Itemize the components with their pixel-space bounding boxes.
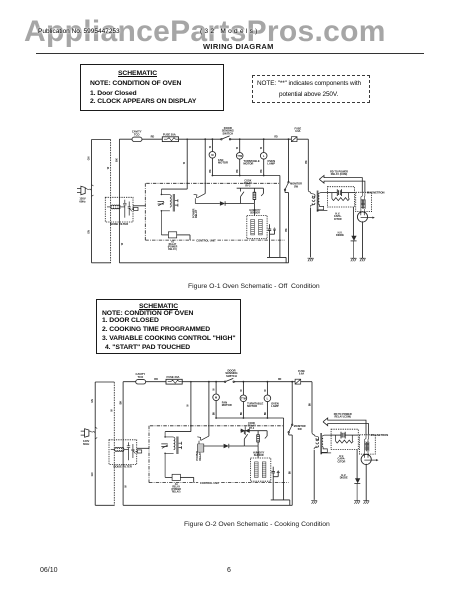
label FAN MOTOR bbox=[218, 158, 228, 165]
wire label W lower bbox=[121, 242, 124, 245]
svg-text:MOTOR: MOTOR bbox=[243, 162, 253, 166]
svg-text:BK: BK bbox=[306, 160, 308, 164]
wire - third vertical (line to fuse) bbox=[118, 139, 120, 263]
svg-text:MAGNETRON: MAGNETRON bbox=[367, 191, 385, 195]
wire - A1 relay to boundary bbox=[177, 235, 190, 240]
svg-text:BK: BK bbox=[116, 158, 119, 162]
wire - transformer secondary to ground leg bbox=[310, 208, 312, 258]
capacitor C2 (noise filter) bbox=[128, 202, 132, 216]
svg-text:W: W bbox=[107, 166, 110, 169]
label NOISE FILTER bbox=[110, 222, 128, 226]
svg-text:W: W bbox=[210, 145, 212, 148]
monitor switch SW2 bbox=[284, 139, 289, 263]
svg-text:0.6A: 0.6A bbox=[295, 130, 300, 133]
door sensing switch SW1 bbox=[220, 136, 232, 142]
wire - arrow tail drop bbox=[0, 0, 1, 1]
control unit boundary (dash-dot) bbox=[145, 183, 285, 240]
relay RY-2 contact bbox=[237, 188, 264, 203]
humidity sensor dashed box bbox=[247, 216, 267, 239]
wire - top supply bus bbox=[119, 138, 308, 140]
wire - relay output horizontal bbox=[195, 203, 240, 205]
label TURNTABLE MOTOR bbox=[243, 159, 259, 166]
caption figure O-2 bbox=[184, 521, 330, 528]
svg-text:BK: BK bbox=[261, 169, 263, 173]
junction dot bottom fan bbox=[212, 175, 214, 177]
fan motor M1 bbox=[209, 152, 216, 159]
svg-text:RELAY (COM): RELAY (COM) bbox=[331, 173, 348, 176]
wire - transformer primary top feed bbox=[161, 138, 188, 189]
caption figure O-1 bbox=[188, 283, 320, 290]
sensor element 2 bbox=[259, 219, 263, 235]
header rule bbox=[36, 53, 424, 54]
svg-text:TTM: TTM bbox=[237, 156, 242, 158]
label DOOR SENSING SWITCH bbox=[222, 126, 234, 136]
svg-text:CONTROL UNIT: CONTROL UNIT bbox=[196, 239, 216, 243]
low voltage transformer T1 bbox=[158, 189, 178, 235]
wire - second vertical (neutral lead) bbox=[110, 140, 112, 263]
wire - filter to control unit bbox=[133, 205, 145, 207]
wire label W lamp bbox=[261, 146, 263, 149]
junction transformer feed bbox=[186, 183, 188, 185]
label MAGNETRON bbox=[367, 191, 385, 195]
junction at fan motor branch bbox=[212, 138, 214, 140]
relay RY contact block (O-2 only) bbox=[198, 444, 204, 452]
svg-text:RY-2: RY-2 bbox=[245, 185, 251, 187]
title WIRING DIAGRAM bbox=[203, 42, 274, 51]
magnetron V1 bbox=[357, 212, 374, 223]
svg-text:W: W bbox=[237, 146, 239, 149]
wire label RD bbox=[151, 136, 155, 139]
label 120V 60Hz bbox=[79, 197, 86, 204]
label RELAY text bbox=[244, 180, 252, 187]
junction HV secondary bbox=[318, 209, 328, 211]
wire - bottom return bus bbox=[119, 262, 288, 264]
svg-text:GN: GN bbox=[87, 156, 90, 160]
svg-text:M: M bbox=[211, 153, 213, 157]
svg-text:W: W bbox=[184, 161, 186, 164]
sensor element 1 bbox=[251, 219, 255, 235]
wire - motor bottom bus bbox=[212, 175, 280, 177]
svg-text:SW: SW bbox=[294, 185, 299, 188]
label H.V. CAPACITOR bbox=[334, 212, 342, 220]
wire - right vertical from motor bus bbox=[279, 176, 281, 258]
wire - RY-2 link bbox=[261, 188, 263, 196]
wire label BK monitor bbox=[286, 228, 288, 232]
noise filter dashed box bbox=[105, 197, 133, 222]
svg-text:BK: BK bbox=[286, 228, 288, 232]
wire - transformer to A1 relay bbox=[161, 234, 168, 236]
wire label BK right bbox=[306, 160, 308, 164]
svg-text:TCO: TCO bbox=[134, 132, 140, 136]
wire label W tt bbox=[237, 146, 239, 149]
svg-text:LAMP: LAMP bbox=[267, 162, 275, 166]
svg-text:60Hz: 60Hz bbox=[79, 199, 86, 203]
junction top power relay branch bbox=[204, 138, 206, 140]
junction at turntable branch bbox=[239, 138, 241, 140]
power plug P1 bbox=[77, 185, 94, 197]
label A1 RELAY bbox=[168, 240, 178, 251]
note box 250V bbox=[252, 75, 370, 103]
wire - oven lamp branch bbox=[263, 139, 265, 175]
ground - magnetron leg bbox=[360, 258, 366, 261]
label HUMIDITY SENSOR bbox=[249, 210, 261, 215]
filament choke L3 bbox=[363, 192, 365, 212]
svg-text:MOTOR: MOTOR bbox=[218, 161, 228, 165]
wire - lower link line bbox=[267, 257, 286, 262]
junction dot bottom turntable bbox=[239, 175, 241, 177]
svg-text:GN: GN bbox=[87, 230, 90, 234]
label FUSE 20A bbox=[163, 132, 176, 136]
watermark AppliancePartsPros.com bbox=[24, 15, 386, 49]
junction at monitor branch bbox=[288, 138, 290, 140]
capacitor C1 (noise filter) bbox=[123, 200, 126, 218]
wire label BK lamp low bbox=[261, 169, 263, 173]
junction dot bottom lamp bbox=[263, 175, 265, 177]
resistor R1 (bleeder, noise filter) bbox=[132, 207, 138, 210]
fuse F1 20A bbox=[162, 137, 178, 142]
svg-text:RD: RD bbox=[274, 137, 278, 139]
publication number bbox=[38, 28, 120, 35]
wire - turntable motor branch bbox=[239, 139, 241, 175]
wire - magnetron ground leg bbox=[362, 223, 364, 258]
power relay contact RY1 bbox=[194, 194, 206, 204]
wire - cap box to diode leg bbox=[352, 207, 354, 237]
magnetron filament dashed box bbox=[356, 192, 372, 211]
off-page arrow (to power relay) bbox=[319, 176, 365, 193]
svg-text:W: W bbox=[121, 242, 124, 245]
label CONTROL UNIT bbox=[196, 239, 216, 243]
figure O-2 schematic (copy of O-1 shifted) bbox=[81, 368, 389, 505]
svg-text:BK: BK bbox=[237, 169, 239, 173]
wire - fan motor branch bbox=[211, 139, 213, 175]
wire - left vertical (hot lead) bbox=[91, 140, 93, 263]
turntable motor M2 bbox=[236, 153, 243, 160]
label MONITOR SW bbox=[290, 183, 302, 189]
wire label W bbox=[107, 166, 110, 169]
svg-text:RD: RD bbox=[151, 136, 155, 139]
models count bbox=[200, 28, 260, 35]
footer date bbox=[40, 567, 58, 574]
wire label GN lower bbox=[87, 230, 90, 234]
svg-text:CITOR: CITOR bbox=[334, 218, 342, 221]
relay coil A1 bbox=[168, 232, 176, 238]
wire label W fan bbox=[210, 145, 212, 148]
oven lamp LP1 bbox=[260, 153, 267, 160]
ground - transformer bbox=[308, 258, 314, 261]
junction at oven lamp branch bbox=[263, 138, 265, 140]
wire - sensor to lower link bbox=[269, 234, 271, 257]
wire label BK bbox=[116, 158, 119, 162]
wire - top connector between cord leads bbox=[92, 139, 111, 141]
svg-text:W: W bbox=[261, 146, 263, 149]
wire - branch to power relay bbox=[204, 139, 206, 193]
label OVEN LAMP bbox=[267, 159, 275, 166]
triac Q1 (O-2 only) bbox=[241, 427, 250, 436]
wire label BK fan low bbox=[210, 169, 212, 173]
svg-text:DIODE: DIODE bbox=[336, 234, 344, 237]
wire label RD top bbox=[274, 137, 278, 139]
capacitor C4 (HV capacitor) bbox=[327, 189, 354, 196]
wire label BK tt low bbox=[237, 169, 239, 173]
hv capacitor dashed box bbox=[327, 187, 354, 207]
label above arrow bbox=[330, 170, 348, 176]
wire label GN bbox=[87, 156, 90, 160]
filament choke L2 bbox=[361, 192, 363, 212]
svg-text:SENSOR: SENSOR bbox=[250, 213, 260, 215]
svg-text:NOISE FILTER: NOISE FILTER bbox=[110, 222, 128, 226]
hv diode D2 bbox=[351, 236, 357, 241]
label H.V. DIODE bbox=[336, 231, 344, 237]
label FUSE 0.6A bbox=[294, 127, 301, 133]
wire - drop to HV transformer bbox=[308, 139, 310, 192]
wire - bottom connector between cord leads bbox=[92, 262, 111, 264]
ground - diode leg bbox=[350, 241, 356, 261]
note box 2 bbox=[96, 299, 241, 354]
capacitor C3 beside sensor bbox=[268, 224, 276, 234]
high-voltage transformer T2 bbox=[310, 191, 327, 212]
relay RY-2 coil bbox=[253, 188, 256, 203]
resistor R2 (bleeder in cap box) bbox=[332, 193, 350, 201]
label CAVITY TCO bbox=[132, 130, 142, 137]
svg-text:RELAY): RELAY) bbox=[168, 248, 177, 251]
svg-text:BK: BK bbox=[210, 169, 212, 173]
inductor L1 (noise filter choke) bbox=[107, 205, 125, 209]
thermal cutout TCO1 (cavity) bbox=[132, 137, 142, 141]
high-voltage fuse F2 bbox=[291, 137, 297, 142]
svg-text:SWITCH: SWITCH bbox=[222, 132, 233, 136]
svg-text:FUSE 20A: FUSE 20A bbox=[163, 132, 176, 136]
wire - RY2 to sensor box bbox=[241, 203, 255, 215]
footer page number bbox=[227, 567, 231, 574]
label POWER RELAY vertical bbox=[192, 208, 198, 218]
svg-text:RELAY: RELAY bbox=[195, 209, 198, 218]
note box 1 bbox=[80, 64, 224, 111]
diode D1 bbox=[220, 201, 225, 205]
